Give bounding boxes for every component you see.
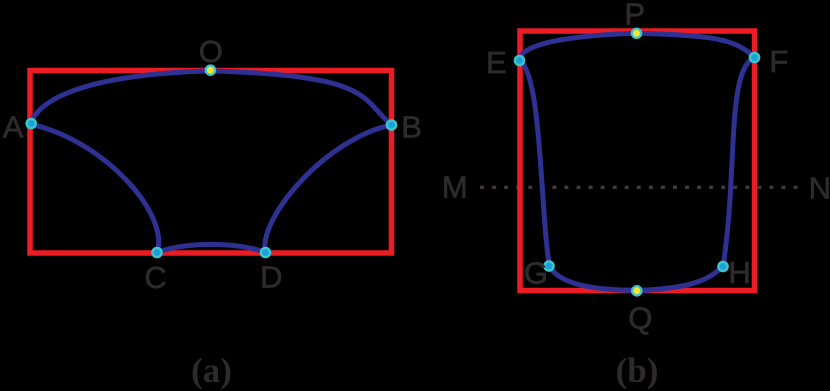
point D (260, 247, 272, 259)
svg-text:H: H (728, 255, 750, 290)
svg-text:Q: Q (628, 300, 652, 335)
point E (514, 55, 526, 67)
svg-text:N: N (809, 170, 830, 205)
dotted line M-N (480, 186, 801, 189)
arc A-O-B (30, 71, 392, 125)
point Q (631, 285, 643, 297)
svg-text:B: B (401, 110, 422, 145)
side curve F-H (723, 58, 755, 267)
svg-text:D: D (260, 260, 282, 295)
side curve E-G (520, 61, 550, 267)
arc G-Q-H (550, 266, 724, 291)
svg-text:A: A (3, 109, 24, 144)
point A (25, 118, 37, 130)
svg-text:C: C (144, 260, 166, 295)
point G (543, 260, 555, 272)
rectangle frame (b) (520, 31, 755, 291)
point B (386, 119, 398, 131)
point H (717, 261, 729, 273)
point F (749, 52, 761, 64)
arc A-C (30, 124, 159, 253)
svg-text:M: M (442, 169, 468, 204)
svg-text:(b): (b) (616, 351, 659, 390)
point P (631, 28, 643, 40)
arc C-D (157, 244, 266, 252)
rectangle frame (a) (30, 71, 392, 254)
svg-text:O: O (199, 34, 223, 69)
svg-text:E: E (486, 45, 507, 80)
svg-text:F: F (769, 44, 788, 79)
svg-text:G: G (524, 255, 548, 290)
arc B-D (265, 125, 392, 253)
svg-text:P: P (624, 0, 645, 32)
svg-text:(a): (a) (191, 351, 232, 390)
point O (205, 64, 217, 76)
point C (151, 247, 163, 259)
arc E-P-F (520, 33, 755, 60)
